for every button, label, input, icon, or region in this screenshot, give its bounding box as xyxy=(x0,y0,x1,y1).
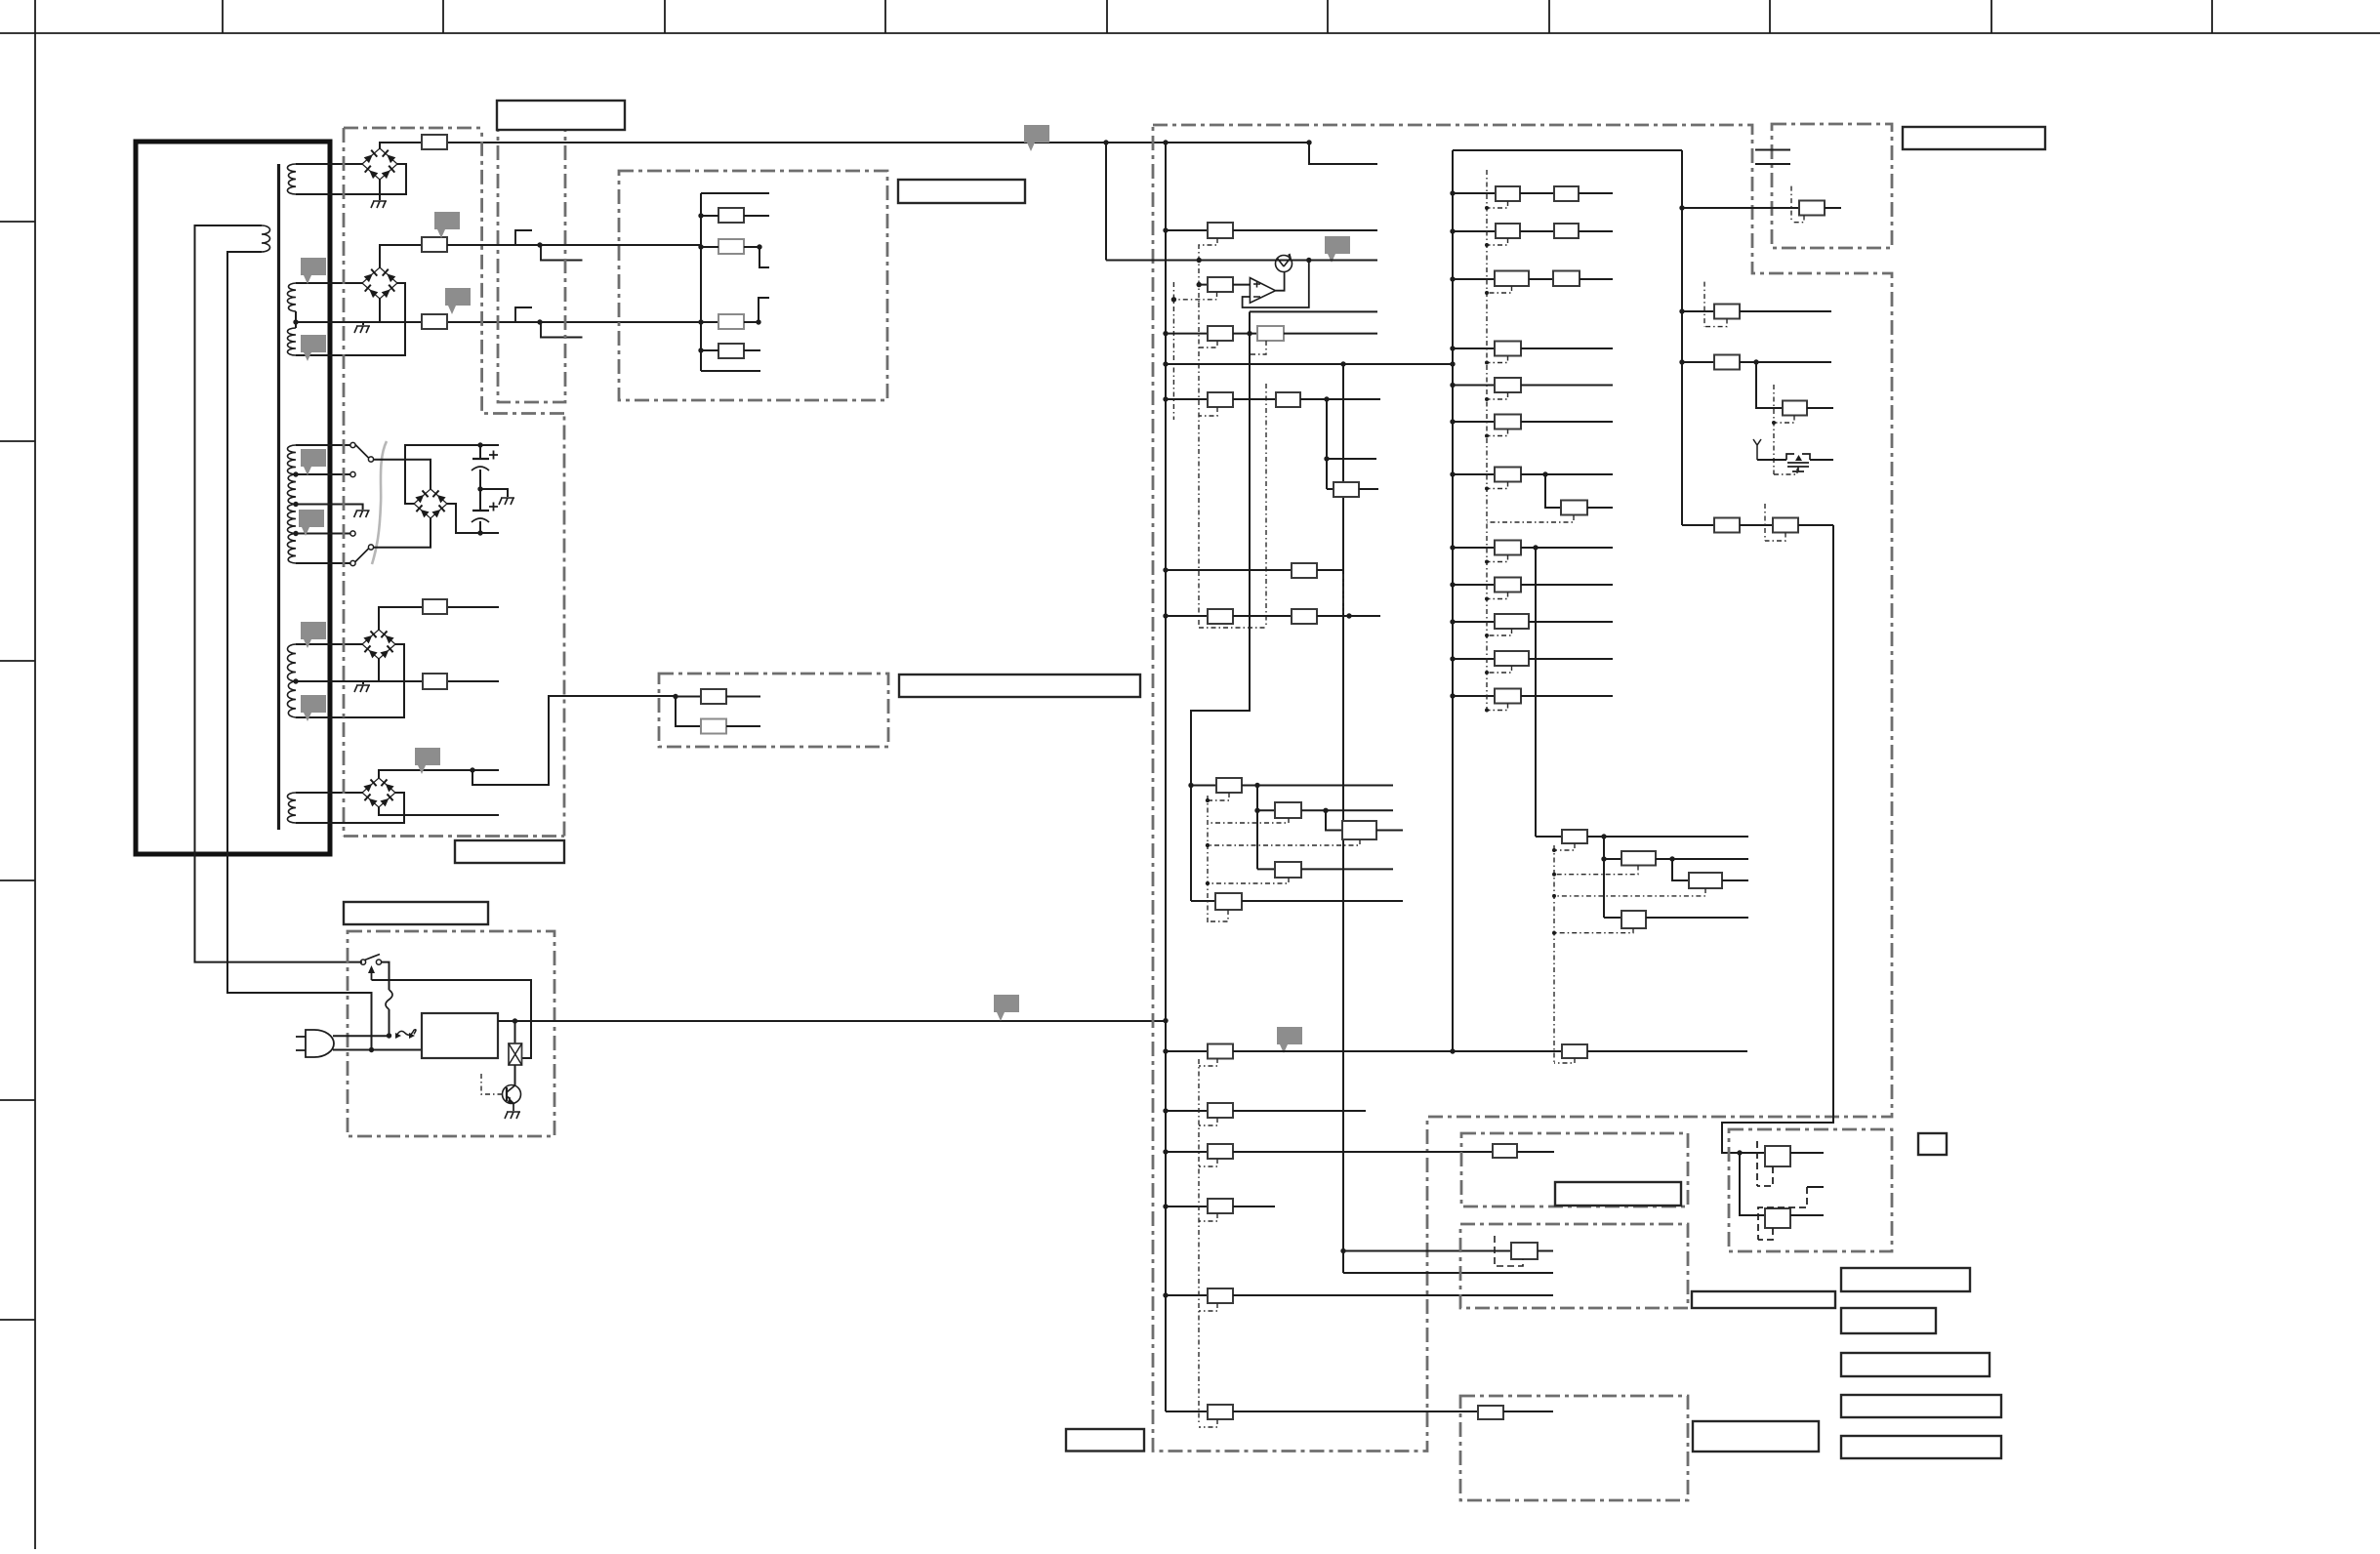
wire D3 - rail xyxy=(447,504,499,533)
label power block xyxy=(344,902,488,924)
mid row y561 xyxy=(1450,545,1455,550)
wire stubs into sub F xyxy=(1755,149,1790,151)
secondary winding S7 xyxy=(287,793,296,823)
regulator bus lower xyxy=(700,247,702,371)
dash-dot block I (reset) xyxy=(1729,1129,1892,1251)
row y584 xyxy=(1163,567,1168,572)
fuse F5 xyxy=(423,674,447,689)
selector switch contacts xyxy=(350,442,355,447)
wire S6 bottom to D4 xyxy=(296,644,404,717)
note icon 11 xyxy=(994,995,1019,1021)
row y342 resistors xyxy=(1163,331,1168,336)
label in H xyxy=(1555,1182,1681,1206)
row y373 xyxy=(1163,361,1168,366)
row1 resistor xyxy=(1163,227,1168,232)
dash-dot block H2 xyxy=(1460,1224,1688,1308)
fuse F1 xyxy=(422,135,447,149)
mid row y637 xyxy=(1450,619,1455,624)
node C1/C2 midpoint xyxy=(477,486,482,491)
mid row y198 xyxy=(1450,190,1455,195)
mid bus xyxy=(1453,149,1682,151)
mid row y237 xyxy=(1450,228,1455,233)
wire D3 + rail xyxy=(405,445,499,504)
dotted cluster B bus xyxy=(1554,843,1575,1063)
row B4 xyxy=(1682,524,1714,526)
bridge rectifier D1 xyxy=(362,148,397,180)
note icon 2 xyxy=(301,335,326,361)
regulator row xyxy=(1106,260,1377,262)
right column labels xyxy=(1841,1268,1970,1291)
dotted lower bus xyxy=(1198,1059,1200,1425)
dash-dot block main board xyxy=(1153,125,1892,1452)
mid row y357 xyxy=(1450,346,1455,350)
capacitor C2 xyxy=(479,489,481,511)
wire D5 to heater rail xyxy=(472,696,676,785)
note icon 13 xyxy=(1277,1027,1302,1053)
transistor block T1 xyxy=(1737,1150,1742,1155)
fuse F2 xyxy=(422,237,447,252)
row y1077 xyxy=(1163,1048,1168,1053)
note icon 3 xyxy=(434,212,460,238)
taps to selector switch xyxy=(296,444,350,446)
note icon 8 xyxy=(301,695,326,721)
dash-dot block sub F xyxy=(1772,124,1892,248)
secondary winding S3 xyxy=(288,328,297,355)
transistor Q2 xyxy=(1276,256,1293,272)
feedback loop xyxy=(1243,261,1309,308)
connector steps row251 xyxy=(515,230,532,245)
wire from F2 rail into regulator xyxy=(447,244,701,246)
long vertical xyxy=(1342,364,1344,1273)
dash-dot block power supply unit xyxy=(348,931,554,1136)
bus main left xyxy=(1165,143,1167,1411)
dotted ctrl2 xyxy=(1217,341,1266,354)
relay coil xyxy=(514,1021,516,1043)
op-amp U1 xyxy=(1250,278,1275,304)
label M2 xyxy=(1693,1421,1819,1452)
dash-dot block regulator xyxy=(619,171,887,400)
mid row y599 xyxy=(1450,582,1455,587)
note icon 12 xyxy=(1325,236,1350,263)
wire S3 bottom to D2 xyxy=(296,283,405,355)
switch blades xyxy=(355,445,369,459)
AC plug xyxy=(306,1030,334,1057)
standby transformer box xyxy=(422,1013,498,1058)
top title strip xyxy=(0,32,2380,34)
fusible resistor FR xyxy=(396,1030,416,1037)
primary winding xyxy=(262,225,270,252)
wire center tap rail xyxy=(296,321,701,323)
mid row y286 xyxy=(1450,276,1455,281)
label heater xyxy=(899,675,1140,697)
node heater in xyxy=(673,694,677,699)
dotted mid bus xyxy=(1486,170,1488,711)
label board A xyxy=(497,101,625,130)
wire PSU rail to bus xyxy=(1163,1018,1168,1023)
note icon 7 xyxy=(301,622,326,648)
wire primary top feed xyxy=(195,225,363,962)
wire S2 to bridge D2 xyxy=(296,282,363,284)
dash-dot block heater reg xyxy=(659,674,888,747)
row T1b xyxy=(1807,1186,1824,1188)
resistor op-amp input xyxy=(1197,282,1202,287)
wire selector pole lower to D3 xyxy=(374,518,431,548)
dash-dot block H xyxy=(1461,1133,1688,1206)
resistor RG3 xyxy=(701,321,718,323)
row y1283 xyxy=(1340,1248,1345,1253)
mid row y713 xyxy=(1450,693,1455,698)
connector steps row330 xyxy=(515,307,532,322)
note icon 6 xyxy=(299,510,324,536)
row y320 xyxy=(1250,310,1377,312)
row y409 xyxy=(1163,396,1168,401)
row y1180 xyxy=(1163,1149,1168,1154)
dotted cluster bus xyxy=(1208,793,1229,922)
row y1304 xyxy=(1343,1272,1553,1274)
note icon 4 xyxy=(445,288,471,314)
wire D1 + output xyxy=(380,143,1309,148)
relay arrow xyxy=(371,972,373,980)
ground D1 xyxy=(379,180,381,200)
dash-dot block rectifier board xyxy=(344,128,564,837)
bottom left label xyxy=(1066,1429,1144,1452)
note icon 5 xyxy=(301,449,326,475)
ground center tap xyxy=(362,322,364,325)
row y1328 xyxy=(1163,1292,1168,1297)
resistor RG1 xyxy=(718,208,744,223)
wire switch to thermal fuse xyxy=(382,962,390,990)
resistor RH2 xyxy=(676,697,701,727)
wire tap rail to F5 xyxy=(296,680,499,682)
row y1236 xyxy=(1163,1204,1168,1208)
wire S1 to bridge D1 xyxy=(296,163,363,165)
transistor block T2 xyxy=(1740,1153,1765,1215)
right bus xyxy=(1681,150,1683,525)
wire D4 + output xyxy=(379,607,499,630)
secondary winding S2 xyxy=(287,283,296,311)
row B2 xyxy=(1679,359,1684,364)
mid row y675 xyxy=(1450,656,1455,661)
base dotted xyxy=(481,1074,503,1094)
wire D5 - output xyxy=(379,807,499,815)
fuse F4 xyxy=(423,599,447,614)
label top right xyxy=(1903,127,2045,149)
wire S7 to bridge D5 xyxy=(296,792,363,794)
power switch SW xyxy=(360,960,365,964)
ground tap xyxy=(362,681,364,684)
wire D5 + output xyxy=(379,770,499,778)
row y631 xyxy=(1163,613,1168,618)
left margin column xyxy=(34,33,36,1549)
label board B xyxy=(455,840,564,863)
transformer core xyxy=(277,164,280,830)
label right of I xyxy=(1918,1133,1947,1155)
capacitor C1 xyxy=(479,445,481,459)
secondary winding S5 xyxy=(288,644,297,681)
transistor Q1 xyxy=(514,1065,516,1085)
bridge rectifier D2 xyxy=(362,267,397,299)
note icon 9 xyxy=(415,748,440,774)
row F resistor xyxy=(1679,205,1684,210)
bridge rectifier D3 xyxy=(414,489,447,518)
wire +B drop xyxy=(1105,143,1107,261)
transformer T1 outline xyxy=(136,142,330,854)
wire primary bottom feed xyxy=(227,252,372,1050)
bridge rectifier D4 xyxy=(362,630,395,659)
row y1446 xyxy=(1166,1411,1208,1412)
mid row y394.5 xyxy=(1450,383,1455,388)
node center tap S2/S3 xyxy=(293,319,298,324)
dash-dot block H3 xyxy=(1460,1396,1688,1500)
resistor RG2 xyxy=(718,239,744,254)
mechanical gang bar xyxy=(372,441,387,564)
wire PSU output rail xyxy=(498,1020,1165,1022)
resistor RH1 xyxy=(676,696,701,698)
wire selector pole upper to D3 xyxy=(374,460,431,489)
resistor RG4 xyxy=(718,344,744,358)
wire plug line2 xyxy=(369,1047,374,1052)
wire D2 + output xyxy=(380,245,447,267)
label M1 xyxy=(1692,1291,1835,1308)
mid row y432 xyxy=(1450,419,1455,424)
note icon 10 xyxy=(1024,125,1049,151)
row B1 xyxy=(1679,308,1684,313)
wire S5 to bridge D4 xyxy=(296,643,363,645)
bridge rectifier D5 xyxy=(362,778,395,807)
fuse F3 xyxy=(422,314,447,329)
row y1138 xyxy=(1163,1108,1168,1113)
long drop to reset block xyxy=(1722,525,1833,1153)
wire +B rail jog xyxy=(1309,143,1377,164)
cluster rows xyxy=(1188,783,1193,788)
note icon 1 xyxy=(301,258,326,284)
FET Q3 xyxy=(1753,439,1761,460)
node S5/S6 tap xyxy=(293,678,298,683)
label regulator xyxy=(898,180,1025,203)
secondary winding S6 xyxy=(287,681,296,717)
mid row y486 xyxy=(1450,471,1455,476)
cluster B rows xyxy=(1536,836,1562,838)
dash-dot block sub board xyxy=(498,128,565,402)
secondary winding S1 xyxy=(287,164,296,194)
tapped winding S4 (voltage selector) xyxy=(288,445,297,474)
wire from F3 rail into regulator xyxy=(698,319,703,324)
mid row extras xyxy=(1542,471,1547,476)
dotted ctrl xyxy=(1173,282,1216,420)
regulator bus upper xyxy=(700,193,702,247)
thermal fuse TF xyxy=(386,990,392,1009)
